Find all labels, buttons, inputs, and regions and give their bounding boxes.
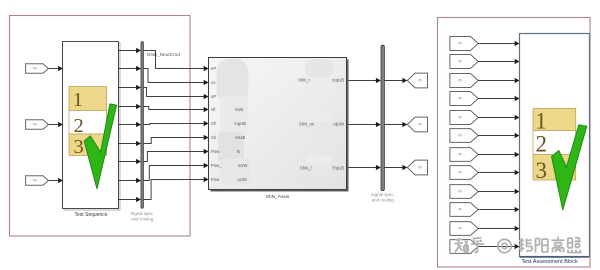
ShN_Assis input port labels xyxy=(211,66,222,182)
svg-text:-T-: -T- xyxy=(32,122,38,127)
wire Test Sequence out8 to bar1 xyxy=(119,178,142,183)
ShN_Assis input label suffixes xyxy=(235,107,248,182)
from tag F2 xyxy=(26,120,49,130)
goto tag G1 xyxy=(407,73,427,88)
wire bar2 to goto tag G3 xyxy=(384,165,407,170)
signal spec bar 1 label xyxy=(130,211,154,222)
wire Test Sequence out6 to bar1 xyxy=(119,141,142,146)
from tag R7 xyxy=(450,148,478,162)
ShN_Assis block name label xyxy=(266,194,290,200)
wire R5 to Test Assessment xyxy=(478,115,519,120)
wire R2 to Test Assessment xyxy=(478,59,519,64)
from tag R3 xyxy=(450,74,478,88)
svg-text:Ch: Ch xyxy=(211,121,217,126)
svg-text:-T-: -T- xyxy=(457,41,463,46)
svg-text:-T-: -T- xyxy=(457,189,463,194)
svg-text:Pow: Pow xyxy=(211,149,220,154)
from tag R12 xyxy=(450,240,478,254)
node label Glob_NeutCmd xyxy=(147,52,180,58)
goto tag G3 xyxy=(407,160,427,175)
wire Test Sequence out2 to bar1 xyxy=(119,66,142,71)
svg-text:nUW: nUW xyxy=(238,163,247,168)
from tag R2 xyxy=(450,55,478,69)
svg-text:uP: uP xyxy=(211,94,216,99)
watermark zhihu xyxy=(455,237,582,253)
svg-text:-T-: -T- xyxy=(457,207,463,212)
wire bar1 to ShN_Assis input 9 xyxy=(144,177,209,200)
svg-text:v1: v1 xyxy=(211,80,216,85)
from tag F1 xyxy=(26,64,49,74)
wire Test Sequence out1 to bar1 xyxy=(119,48,142,53)
wire bar1 to ShN_Assis input 7 xyxy=(144,149,209,162)
wire R3 to Test Assessment xyxy=(478,78,519,83)
wire R6 to Test Assessment xyxy=(478,133,519,138)
red boundary box right xyxy=(438,18,591,268)
svg-text:rqUW: rqUW xyxy=(333,122,344,127)
wire ShN_Assis output 2 to bar2 xyxy=(349,122,381,127)
wire F1 to Test Sequence xyxy=(48,66,63,71)
wire Test Sequence out4 to bar1 xyxy=(119,104,142,109)
from tag R4 xyxy=(450,92,478,106)
svg-text:ShN_nn: ShN_nn xyxy=(299,122,315,127)
Test Sequence block xyxy=(63,42,121,211)
from tag R11 xyxy=(450,222,478,236)
svg-text:3: 3 xyxy=(74,136,84,158)
svg-text:-T-: -T- xyxy=(457,152,463,157)
wire R4 to Test Assessment xyxy=(478,96,519,101)
wire R11 to Test Assessment xyxy=(478,226,519,231)
svg-text:TrqUB: TrqUB xyxy=(332,166,344,171)
goto tag G2 xyxy=(407,117,427,132)
wire bar2 to goto tag G2 xyxy=(384,122,407,127)
from tag F3 xyxy=(26,176,49,186)
wire Test Sequence out3 to bar1 xyxy=(119,85,142,90)
svg-text:1: 1 xyxy=(535,108,547,133)
svg-text:Pow: Pow xyxy=(211,177,220,182)
Test Assessment block xyxy=(520,34,590,257)
svg-text:Pow_: Pow_ xyxy=(211,163,222,168)
svg-text:-T-: -T- xyxy=(457,96,463,101)
wire R7 to Test Assessment xyxy=(478,152,519,157)
svg-text:Test Sequence: Test Sequence xyxy=(74,212,107,218)
svg-text:-T-: -T- xyxy=(457,59,463,64)
svg-text:-T-: -T- xyxy=(32,66,38,71)
svg-text:2: 2 xyxy=(536,132,548,157)
Test Sequence label xyxy=(74,212,107,218)
wire bar1 to ShN_Assis input 6 xyxy=(144,135,209,144)
from tag R10 xyxy=(450,203,478,217)
svg-text:nUB: nUB xyxy=(235,107,243,112)
wire Test Sequence out7 to bar1 xyxy=(119,159,142,164)
svg-text:3: 3 xyxy=(536,158,548,183)
redaction blobs right column xyxy=(305,60,334,176)
wire bar1 to ShN_Assis input 5 xyxy=(144,121,209,126)
svg-text:reqUB: reqUB xyxy=(332,78,344,83)
svg-text:-T-: -T- xyxy=(417,78,423,83)
wire F2 to Test Sequence xyxy=(48,122,63,127)
svg-text:1: 1 xyxy=(73,89,83,111)
svg-text:and routing: and routing xyxy=(372,198,395,203)
Test Sequence icon list rows xyxy=(69,87,107,158)
subsystem block ShN_Assis xyxy=(209,58,349,192)
svg-text:ingUB: ingUB xyxy=(235,121,247,126)
wire bar1 to ShN_Assis input 2 xyxy=(144,69,209,86)
Test Assessment Block label xyxy=(521,259,577,265)
wire Test Sequence out5 to bar1 xyxy=(119,122,142,127)
svg-text:ShN_/: ShN_/ xyxy=(300,166,312,171)
from tag R5 xyxy=(450,111,478,125)
wire bar1 to ShN_Assis input 1 xyxy=(144,51,209,72)
redaction blob left column xyxy=(217,59,251,185)
red boundary box left xyxy=(10,16,191,237)
wire ShN_Assis output 1 to bar2 xyxy=(349,78,381,83)
svg-text:-T-: -T- xyxy=(457,115,463,120)
svg-text:Ck: Ck xyxy=(211,135,217,140)
Test Assessment green checkmark xyxy=(552,125,587,210)
svg-text:-T-: -T- xyxy=(417,122,423,127)
svg-text:-T-: -T- xyxy=(457,226,463,231)
svg-text:Signal spec.: Signal spec. xyxy=(371,192,395,197)
from tag R9 xyxy=(450,185,478,199)
svg-text:eP: eP xyxy=(211,66,216,71)
svg-text:Glob_NeutCmd: Glob_NeutCmd xyxy=(147,52,180,58)
Test Sequence green checkmark xyxy=(84,104,116,189)
svg-text:nsUB: nsUB xyxy=(235,135,245,140)
svg-text:-T-: -T- xyxy=(457,133,463,138)
svg-text:-T-: -T- xyxy=(417,165,423,170)
svg-text:and routing: and routing xyxy=(131,217,154,222)
wire bar1 to ShN_Assis input 4 xyxy=(144,107,209,113)
wire R8 to Test Assessment xyxy=(478,170,519,175)
svg-text:uUW: uUW xyxy=(238,177,247,182)
from tag R6 xyxy=(450,129,478,143)
from tag R1 xyxy=(450,37,478,51)
signal spec bar 1 xyxy=(141,42,143,209)
wire R9 to Test Assessment xyxy=(478,189,519,194)
Test Assessment icon list rows xyxy=(533,108,576,183)
wire ShN_Assis output 3 to bar2 xyxy=(349,165,381,170)
svg-text:-T-: -T- xyxy=(32,178,38,183)
from tag R8 xyxy=(450,166,478,180)
svg-text:ShN_Assis: ShN_Assis xyxy=(266,194,290,200)
wire R1 to Test Assessment xyxy=(478,41,519,46)
svg-text:Signal spec.: Signal spec. xyxy=(130,211,154,216)
svg-text:B: B xyxy=(237,149,240,154)
wire bar1 to ShN_Assis input 8 xyxy=(144,163,209,181)
svg-text:2: 2 xyxy=(74,115,84,137)
svg-text:ShN_r: ShN_r xyxy=(298,78,310,83)
wire R12 to Test Assessment xyxy=(478,244,519,249)
svg-text:-T-: -T- xyxy=(457,170,463,175)
ShN_Assis output port labels xyxy=(298,78,344,171)
wire R10 to Test Assessment xyxy=(478,207,519,212)
wire F3 to Test Sequence xyxy=(48,178,63,183)
wire bar1 to ShN_Assis input 3 xyxy=(144,88,209,100)
svg-text:Test Assessment Block: Test Assessment Block xyxy=(521,259,577,265)
svg-text:-T-: -T- xyxy=(457,78,463,83)
wire Test Sequence out9 to bar1 xyxy=(119,197,142,202)
signal spec bar 2 xyxy=(381,45,384,190)
signal spec bar 2 label xyxy=(371,192,395,203)
wire bar2 to goto tag G1 xyxy=(384,78,407,83)
